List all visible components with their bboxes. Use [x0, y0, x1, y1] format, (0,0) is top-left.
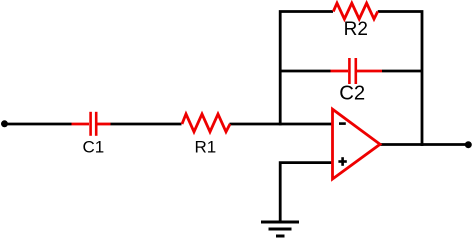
svg-text:R2: R2 — [344, 19, 368, 40]
svg-text:C2: C2 — [339, 83, 365, 105]
svg-text:C1: C1 — [83, 138, 105, 157]
svg-text:R1: R1 — [195, 138, 217, 157]
